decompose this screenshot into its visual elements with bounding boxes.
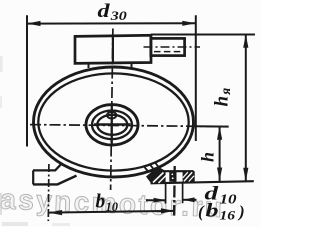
svg-text:h: h xyxy=(198,152,218,162)
svg-text:30: 30 xyxy=(110,9,128,23)
svg-text:16: 16 xyxy=(220,208,236,223)
svg-text:10: 10 xyxy=(220,192,237,207)
svg-text:b: b xyxy=(206,201,219,222)
svg-text:10: 10 xyxy=(106,200,119,214)
svg-text:b: b xyxy=(96,192,106,213)
svg-text:d: d xyxy=(98,1,111,22)
svg-text:): ) xyxy=(237,202,245,221)
